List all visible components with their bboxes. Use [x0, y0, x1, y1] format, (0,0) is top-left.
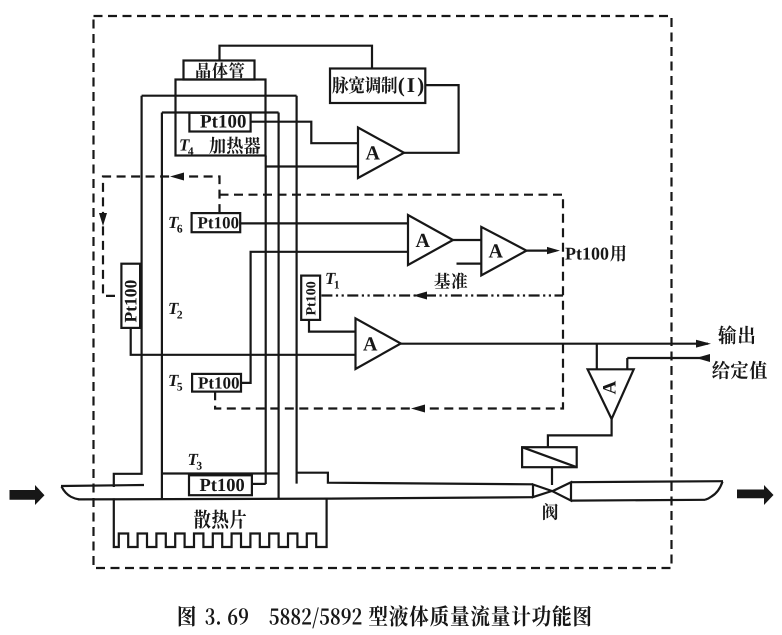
- wire: Pt100 T3 right to V1: [252, 483, 266, 485]
- wire: output branch down to amp A5: [596, 344, 598, 370]
- arrowhead on dashed top path (left): [170, 173, 184, 181]
- caption 图 3.69: [179, 606, 196, 627]
- label 阀: [543, 503, 558, 520]
- inner dashed box: top, right, bottom into Pt100 T5: [215, 195, 563, 409]
- wire: PWM right side down to amp A1 output: [404, 85, 459, 153]
- wire: bottom cross link L2 to V2: [162, 472, 279, 474]
- label 给定值: [712, 361, 767, 379]
- arrowhead on reference line (left): [413, 292, 427, 300]
- wire: heater jacket left side L2: [161, 113, 163, 500]
- wire: V3 branch step into pipe top: [297, 473, 533, 485]
- label T2: [169, 303, 182, 319]
- wire: Pt100 T4 to amp A1 input 1: [251, 122, 358, 144]
- amp A4: [356, 318, 401, 369]
- wire: amp A2 output to amp A3: [453, 239, 481, 241]
- arrowhead: setpoint (points left): [696, 354, 710, 362]
- label 基准: [434, 273, 467, 290]
- wire: left column L1 down into pipe: [114, 96, 142, 487]
- amp A5 (points down): [588, 369, 634, 419]
- label T4 加热器: [180, 139, 193, 155]
- label 输出: [718, 325, 755, 344]
- pipe: outlet bottom edge: [571, 499, 705, 502]
- wire: heater jacket top edge: [162, 111, 279, 113]
- pipe: inlet flare: [62, 487, 80, 500]
- transistor box 晶体管: [184, 61, 255, 80]
- label T3: [189, 454, 202, 470]
- Pt100 box T2 (vertical): [121, 264, 140, 328]
- wire: Pt100 T2 down-right to amp A4 input 2: [131, 328, 356, 355]
- dash-dot reference line to Pt100 T1: [321, 294, 563, 296]
- arrowhead on inner dashed bottom edge (left): [411, 405, 425, 413]
- wire: amp A5 output to valve actuator: [548, 419, 612, 447]
- wire: transistor top to PWM box: [220, 46, 373, 69]
- Pt100 box T4: [189, 113, 250, 132]
- heat sink fins (散热片 block outline with comb teeth): [114, 498, 327, 547]
- valve body (bowtie): [533, 485, 552, 498]
- wire: setpoint line to amp A5: [627, 358, 710, 369]
- wire: amp A4 output line to 输出: [401, 343, 708, 345]
- label T6: [169, 217, 182, 233]
- pipe: inlet top edge: [61, 485, 144, 486]
- arrowhead on dashed left path (down): [99, 213, 107, 226]
- dashed feedback: inner loop top-left path into Pt100 T2: [103, 177, 220, 296]
- Pt100 box T6: [192, 213, 241, 232]
- amp A1: [358, 128, 404, 179]
- wire: reference stub into amp A3: [457, 263, 482, 265]
- label 散热片: [194, 510, 246, 529]
- heater box T4 加热器: [176, 80, 266, 156]
- valve actuator box with diagonal: [522, 447, 577, 467]
- pipe: bottom edge left of valve: [78, 497, 533, 499]
- wire: V1 branch to amp A1 input 2: [266, 165, 358, 167]
- PWM box 脉宽调制(I): [330, 69, 425, 104]
- wire: valve stem: [551, 467, 553, 485]
- wire: Pt100 T6 to amp A2 input 1: [240, 222, 408, 224]
- Pt100 box T3: [189, 475, 252, 495]
- wire: Pt100 T1 down to amp A4 input 1: [309, 320, 356, 332]
- amp A3: [481, 227, 526, 276]
- amp A2: [408, 215, 453, 265]
- wire: V3 right column down to pipe: [296, 96, 298, 484]
- outer dashed boundary box: [94, 16, 672, 568]
- pipe: outlet top edge: [571, 481, 723, 482]
- label Pt100用: [565, 248, 608, 260]
- Pt100 box T1 (vertical): [301, 276, 320, 320]
- Pt100 box T5: [192, 374, 241, 392]
- label T1: [326, 273, 339, 289]
- arrowhead: output: [696, 340, 711, 348]
- wire: Pt100 T5 up to amp A2 input 2: [241, 252, 408, 383]
- pipe: outlet flare: [705, 482, 723, 500]
- thick flow arrow in: [10, 485, 45, 505]
- wire: V1 center column (T4 heater to Pt100 T3): [265, 156, 267, 485]
- wire: heater tube loop W1: [142, 95, 297, 97]
- wire: heater jacket right side V2: [278, 113, 280, 500]
- thick flow arrow out: [737, 485, 774, 505]
- label T5: [169, 375, 182, 391]
- arrow output of A3: [527, 250, 557, 252]
